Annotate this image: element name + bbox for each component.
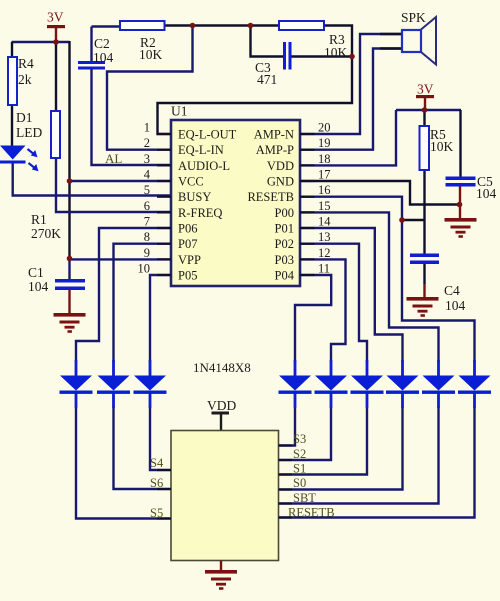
svg-text:AMP-P: AMP-P — [256, 143, 294, 157]
svg-text:1: 1 — [144, 121, 150, 135]
svg-text:U1: U1 — [171, 104, 188, 119]
svg-text:SPK: SPK — [401, 10, 426, 25]
svg-text:RESETB: RESETB — [247, 190, 294, 204]
svg-text:104: 104 — [476, 186, 497, 201]
svg-text:R4: R4 — [18, 56, 34, 71]
svg-text:104: 104 — [445, 298, 466, 313]
svg-text:2k: 2k — [18, 72, 32, 87]
svg-text:BUSY: BUSY — [178, 190, 211, 204]
svg-text:P03: P03 — [275, 253, 294, 267]
svg-text:10K: 10K — [139, 47, 163, 62]
svg-text:471: 471 — [257, 72, 277, 87]
svg-text:D1: D1 — [16, 110, 33, 125]
svg-text:20: 20 — [318, 121, 331, 135]
svg-text:S2: S2 — [293, 447, 306, 461]
svg-text:10: 10 — [138, 262, 151, 276]
svg-text:4: 4 — [144, 168, 151, 182]
svg-text:17: 17 — [318, 168, 331, 182]
svg-text:GND: GND — [267, 175, 294, 189]
svg-text:11: 11 — [318, 262, 330, 276]
svg-text:104: 104 — [28, 279, 49, 294]
svg-text:7: 7 — [144, 215, 150, 229]
svg-text:R1: R1 — [31, 212, 47, 227]
svg-text:1N4148X8: 1N4148X8 — [193, 360, 251, 375]
svg-text:S3: S3 — [293, 432, 306, 446]
svg-text:14: 14 — [318, 215, 331, 229]
svg-text:12: 12 — [318, 246, 331, 260]
svg-text:13: 13 — [318, 230, 331, 244]
svg-text:16: 16 — [318, 183, 331, 197]
svg-text:5: 5 — [144, 183, 150, 197]
svg-text:S4: S4 — [150, 456, 164, 470]
svg-text:2: 2 — [144, 136, 150, 150]
svg-text:15: 15 — [318, 199, 331, 213]
svg-text:P04: P04 — [275, 269, 295, 283]
svg-text:VCC: VCC — [178, 175, 204, 189]
svg-text:SBT: SBT — [293, 491, 316, 505]
svg-text:P02: P02 — [275, 237, 294, 251]
svg-text:P01: P01 — [275, 222, 294, 236]
svg-text:S6: S6 — [150, 476, 163, 490]
svg-text:9: 9 — [144, 246, 150, 260]
svg-text:19: 19 — [318, 136, 331, 150]
svg-text:C2: C2 — [94, 36, 110, 51]
svg-text:3V: 3V — [47, 10, 64, 25]
svg-text:C4: C4 — [444, 283, 460, 298]
svg-text:VPP: VPP — [178, 253, 201, 267]
svg-text:C1: C1 — [28, 265, 44, 280]
svg-text:AMP-N: AMP-N — [254, 128, 294, 142]
svg-text:P00: P00 — [275, 206, 294, 220]
svg-text:P06: P06 — [178, 222, 197, 236]
svg-text:RESETB: RESETB — [288, 506, 335, 520]
svg-text:S5: S5 — [150, 506, 163, 520]
svg-text:3: 3 — [144, 152, 150, 166]
svg-text:3V: 3V — [417, 82, 434, 97]
svg-text:AL: AL — [105, 151, 122, 166]
svg-text:VDD: VDD — [207, 398, 236, 413]
svg-text:AUDIO-L: AUDIO-L — [178, 159, 230, 173]
svg-text:6: 6 — [144, 199, 150, 213]
svg-text:S0: S0 — [293, 476, 306, 490]
svg-text:EQ-L-OUT: EQ-L-OUT — [178, 128, 237, 142]
svg-text:104: 104 — [93, 50, 114, 65]
svg-text:S1: S1 — [293, 462, 306, 476]
svg-text:10K: 10K — [430, 139, 454, 154]
svg-text:P07: P07 — [178, 237, 197, 251]
svg-text:LED: LED — [16, 125, 42, 140]
svg-text:R-FREQ: R-FREQ — [178, 206, 222, 220]
svg-text:EQ-L-IN: EQ-L-IN — [178, 143, 224, 157]
svg-text:18: 18 — [318, 152, 331, 166]
svg-text:270K: 270K — [31, 226, 61, 241]
svg-text:8: 8 — [144, 230, 150, 244]
svg-text:VDD: VDD — [267, 159, 294, 173]
svg-text:P05: P05 — [178, 269, 197, 283]
svg-text:10K: 10K — [324, 45, 348, 60]
